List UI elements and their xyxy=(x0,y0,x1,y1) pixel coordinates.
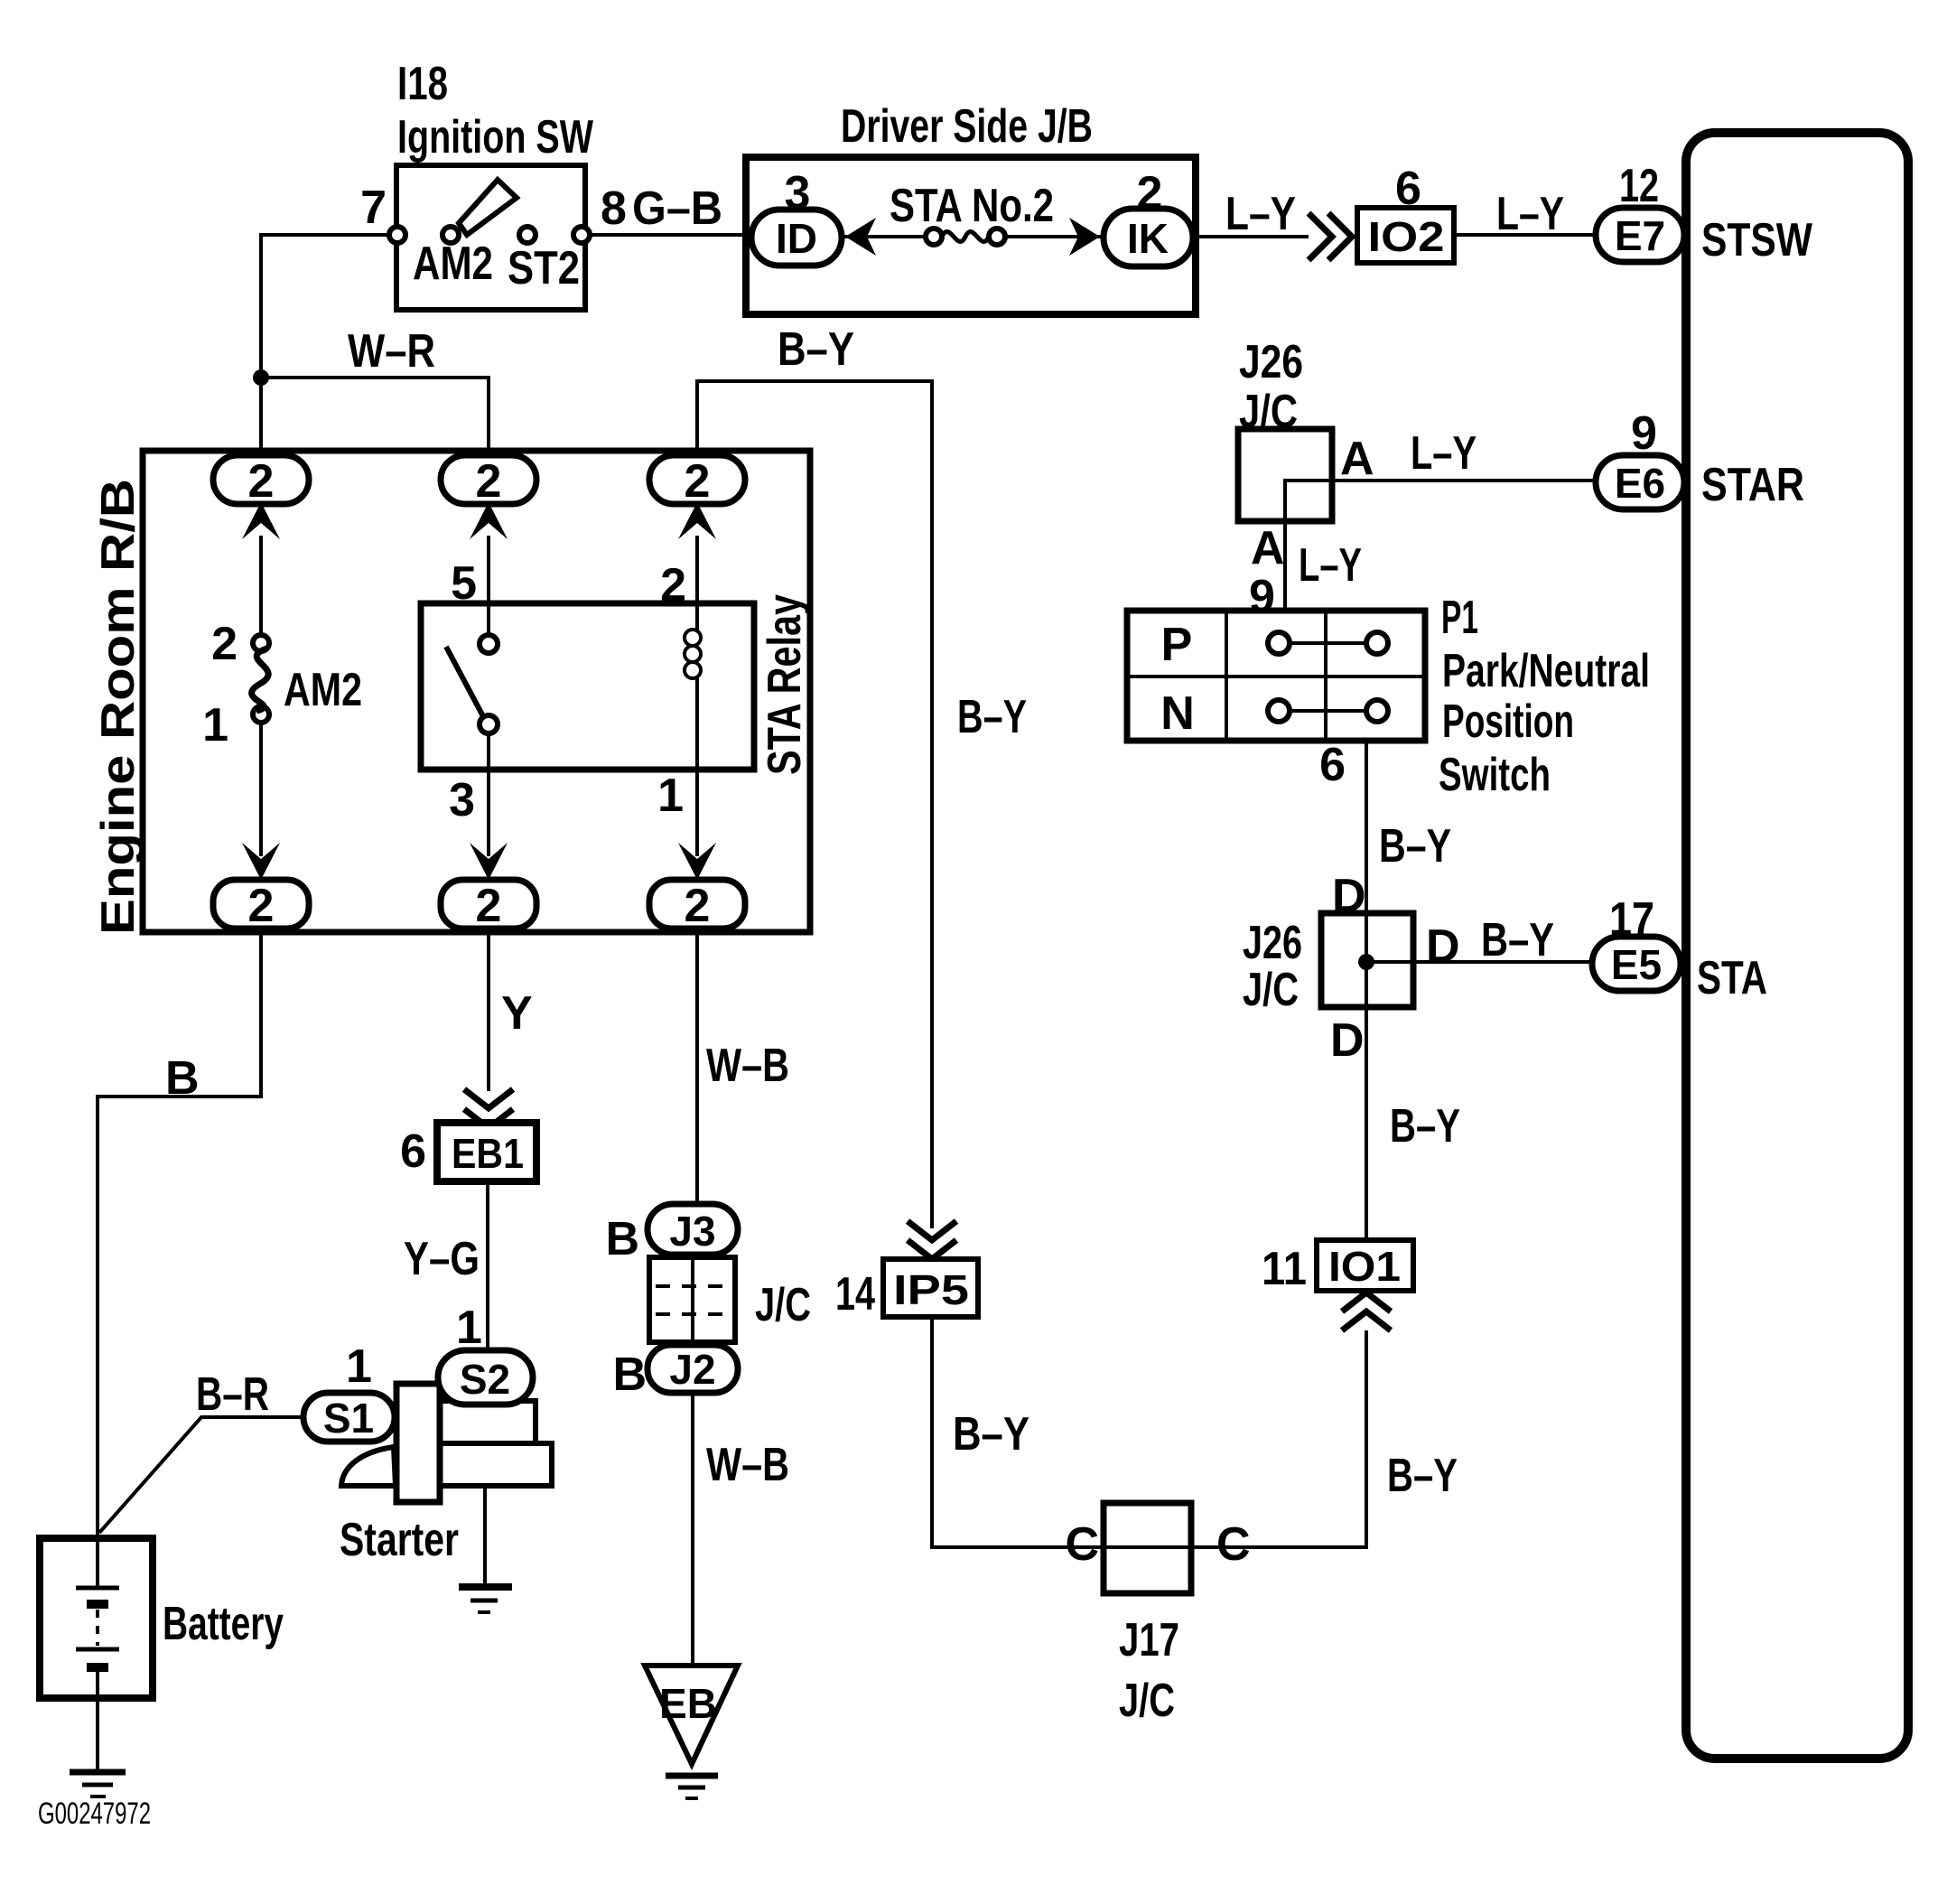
svg-text:J/C: J/C xyxy=(1243,964,1299,1016)
svg-text:IK: IK xyxy=(1127,215,1169,262)
svg-text:B: B xyxy=(165,1052,200,1105)
svg-text:D: D xyxy=(1330,1014,1365,1067)
connector S1 oval xyxy=(303,1393,395,1442)
svg-text:Park/Neutral: Park/Neutral xyxy=(1442,645,1650,697)
svg-text:1: 1 xyxy=(657,770,684,822)
battery box xyxy=(40,1538,153,1698)
wire G-B pin8 to J/B xyxy=(582,233,753,237)
svg-text:S2: S2 xyxy=(460,1356,510,1403)
svg-text:I18: I18 xyxy=(397,58,448,110)
svg-text:2: 2 xyxy=(476,880,502,932)
N row contacts xyxy=(1290,709,1366,713)
svg-text:Ignition SW: Ignition SW xyxy=(397,111,594,163)
svg-text:B: B xyxy=(605,1213,639,1265)
terminal AM2 xyxy=(442,227,459,243)
wire inside J/B left xyxy=(842,235,934,238)
ignition switch I18 box xyxy=(396,165,585,310)
svg-text:J26: J26 xyxy=(1243,917,1302,969)
svg-text:E5: E5 xyxy=(1611,941,1662,988)
starter body rect right lower xyxy=(440,1443,552,1486)
ground symbol below EB xyxy=(666,1773,718,1779)
svg-text:E6: E6 xyxy=(1615,460,1665,507)
wire D to E5 xyxy=(1366,960,1592,964)
connector E6 xyxy=(1596,455,1684,509)
arrow up col3 xyxy=(678,502,716,539)
wire W-B col3 to J3 xyxy=(695,932,699,1206)
svg-text:6: 6 xyxy=(400,1125,426,1178)
svg-text:IP5: IP5 xyxy=(893,1266,969,1313)
svg-text:Battery: Battery xyxy=(163,1598,284,1650)
junction dot D xyxy=(1358,954,1374,970)
wire relay switch to arrow xyxy=(487,733,490,856)
svg-text:Starter: Starter xyxy=(340,1514,459,1566)
svg-text:W–B: W–B xyxy=(706,1439,789,1491)
wire IP5 to J17 xyxy=(932,1317,1105,1547)
svg-text:8: 8 xyxy=(601,182,627,235)
svg-text:J26: J26 xyxy=(1239,336,1303,388)
connector E5 xyxy=(1592,937,1681,991)
connector IP5 xyxy=(883,1259,978,1317)
svg-text:14: 14 xyxy=(835,1268,875,1321)
svg-text:STSW: STSW xyxy=(1701,214,1813,266)
arrow left solid xyxy=(845,218,876,256)
fuse STA No.2 xyxy=(926,229,942,245)
svg-text:3: 3 xyxy=(785,167,811,219)
svg-text:P: P xyxy=(1161,619,1193,671)
connector ID oval xyxy=(751,210,842,266)
wire col1 to fuse xyxy=(259,536,263,637)
connector J3 oval xyxy=(647,1204,738,1255)
svg-text:B–Y: B–Y xyxy=(1387,1450,1458,1502)
svg-text:2: 2 xyxy=(1137,167,1163,219)
connector E7 xyxy=(1596,208,1684,262)
park/neutral position switch P1 xyxy=(1127,611,1425,741)
svg-text:5: 5 xyxy=(451,557,477,610)
svg-text:Switch: Switch xyxy=(1439,749,1551,801)
relay coil xyxy=(685,630,701,646)
arrow right solid xyxy=(1069,218,1100,256)
arrow down col3 xyxy=(678,843,716,880)
fuse AM2 xyxy=(253,635,269,651)
svg-text:6: 6 xyxy=(1319,739,1346,791)
ground symbol below battery xyxy=(70,1769,126,1776)
svg-text:STA: STA xyxy=(1697,952,1767,1004)
connector J2 oval xyxy=(647,1345,738,1393)
svg-text:B: B xyxy=(612,1349,647,1401)
svg-text:C: C xyxy=(1216,1518,1251,1571)
ground EB triangle xyxy=(645,1666,738,1764)
svg-text:L–Y: L–Y xyxy=(1299,539,1362,592)
svg-text:B–Y: B–Y xyxy=(953,1408,1029,1461)
wire IO1 to J26 xyxy=(1365,1009,1368,1240)
svg-text:A: A xyxy=(1251,522,1285,574)
svg-text:2: 2 xyxy=(248,880,275,932)
svg-text:J/C: J/C xyxy=(1239,386,1298,438)
connector oval 2 bottom col1 xyxy=(213,880,309,929)
svg-text:Y–G: Y–G xyxy=(404,1233,480,1285)
starter nose curve xyxy=(341,1447,396,1486)
svg-text:ST2: ST2 xyxy=(508,242,580,294)
chevrons into EB1 xyxy=(464,1089,513,1128)
svg-text:2: 2 xyxy=(685,455,711,508)
svg-text:B–Y: B–Y xyxy=(1481,914,1554,966)
junction J26 J/C box lower xyxy=(1321,913,1413,1007)
ground symbol starter xyxy=(459,1583,512,1591)
svg-text:2: 2 xyxy=(476,455,502,508)
connector IK oval xyxy=(1104,209,1193,266)
svg-text:W–B: W–B xyxy=(706,1040,789,1092)
wire W-B J2 to EB xyxy=(691,1393,694,1666)
arrow down col1 xyxy=(242,843,280,880)
svg-text:W–R: W–R xyxy=(348,325,435,378)
svg-text:1: 1 xyxy=(456,1302,482,1354)
terminal ST2 xyxy=(519,227,536,243)
connector IO1 xyxy=(1317,1240,1413,1291)
svg-text:G00247972: G00247972 xyxy=(38,1797,151,1831)
svg-text:2: 2 xyxy=(211,618,238,670)
junction J17 box xyxy=(1104,1503,1191,1593)
svg-text:B–Y: B–Y xyxy=(1390,1100,1460,1153)
wire B-R battery to S1 xyxy=(99,1417,303,1533)
svg-text:3: 3 xyxy=(449,774,475,826)
wire starter to ground xyxy=(483,1486,487,1587)
svg-text:STA No.2: STA No.2 xyxy=(890,180,1054,232)
svg-text:L–Y: L–Y xyxy=(1225,188,1296,240)
wire pin7 to column1 xyxy=(261,235,397,457)
battery cells xyxy=(96,1538,99,1588)
svg-text:Engine Room R/B: Engine Room R/B xyxy=(92,479,144,935)
svg-text:IO2: IO2 xyxy=(1368,213,1445,260)
svg-text:B–Y: B–Y xyxy=(1379,820,1451,873)
connector oval 2 bottom col3 xyxy=(649,880,745,929)
connector IO2 xyxy=(1357,208,1454,263)
wire W-R branch xyxy=(261,378,489,457)
svg-text:C: C xyxy=(1065,1518,1099,1571)
svg-text:G–B: G–B xyxy=(632,182,722,235)
chevrons into IP5 xyxy=(908,1221,956,1259)
svg-text:Position: Position xyxy=(1442,695,1574,748)
svg-text:11: 11 xyxy=(1262,1243,1307,1295)
svg-text:J/C: J/C xyxy=(1119,1675,1175,1727)
svg-text:AM2: AM2 xyxy=(284,664,362,716)
svg-text:6: 6 xyxy=(1395,163,1421,215)
svg-text:AM2: AM2 xyxy=(413,238,493,290)
svg-text:STAR: STAR xyxy=(1701,459,1804,511)
svg-text:STA Relay: STA Relay xyxy=(759,594,811,775)
starter body rect right upper xyxy=(440,1401,536,1443)
ignition lever xyxy=(459,180,517,235)
starter solenoid bar xyxy=(396,1384,440,1502)
connector oval 2 top col2 xyxy=(441,455,536,504)
wire B col1 to battery xyxy=(98,932,261,1536)
svg-text:1: 1 xyxy=(202,699,228,751)
wire through J26 xyxy=(1365,741,1368,1007)
junction J26 J/C box upper xyxy=(1238,429,1332,521)
arrow down col2 xyxy=(470,843,508,880)
svg-text:EB1: EB1 xyxy=(452,1130,524,1177)
svg-text:B–Y: B–Y xyxy=(957,691,1027,743)
wire A to E6 xyxy=(1285,481,1596,611)
svg-text:S1: S1 xyxy=(323,1395,374,1442)
wire Y col2 to EB1 xyxy=(487,932,490,1091)
svg-text:EB: EB xyxy=(659,1680,717,1727)
svg-text:12: 12 xyxy=(1619,160,1659,212)
wire inside J/B right xyxy=(997,235,1104,238)
svg-text:9: 9 xyxy=(1631,407,1657,460)
terminal pin 7 xyxy=(389,227,405,243)
wire Y-G EB1 to S2 xyxy=(486,1181,489,1352)
svg-text:D: D xyxy=(1426,920,1460,973)
terminal pin 8 xyxy=(573,227,590,243)
node junction dot W-R xyxy=(253,369,269,386)
chevrons out of IO1 xyxy=(1342,1293,1391,1330)
wire B-Y relay coil to IP5 xyxy=(697,381,932,1228)
P row contacts xyxy=(1290,641,1366,645)
svg-text:E7: E7 xyxy=(1615,212,1665,259)
STA relay box xyxy=(421,603,754,770)
ECU box (right side) xyxy=(1686,133,1908,1759)
junction J/C dashed box xyxy=(649,1257,735,1342)
relay switch contacts xyxy=(446,647,484,718)
Engine Room R/B box xyxy=(143,451,810,932)
svg-text:1: 1 xyxy=(346,1340,372,1393)
connector oval 2 bottom col2 xyxy=(441,880,536,929)
svg-text:B–Y: B–Y xyxy=(778,323,854,376)
wire IO2 to E7 xyxy=(1454,233,1596,237)
svg-text:17: 17 xyxy=(1609,893,1654,946)
svg-text:Driver Side J/B: Driver Side J/B xyxy=(841,100,1093,153)
wire J17 to IO1 xyxy=(1191,1330,1366,1547)
arrow up col2 xyxy=(470,502,508,539)
svg-text:Y: Y xyxy=(501,987,533,1040)
svg-text:P1: P1 xyxy=(1441,592,1478,644)
svg-text:L–Y: L–Y xyxy=(1496,188,1564,240)
svg-text:2: 2 xyxy=(685,880,711,932)
svg-text:N: N xyxy=(1160,687,1195,740)
chevrons into IO2 xyxy=(1309,213,1352,260)
svg-text:IO1: IO1 xyxy=(1328,1243,1401,1290)
Driver Side J/B box xyxy=(746,157,1196,314)
svg-text:2: 2 xyxy=(660,559,686,611)
svg-text:D: D xyxy=(1332,870,1366,922)
svg-text:J17: J17 xyxy=(1119,1614,1179,1666)
wire col3 into relay xyxy=(695,536,699,632)
connector oval 2 top col3 xyxy=(649,455,745,504)
svg-text:ID: ID xyxy=(776,215,817,262)
wire relay coil to arrow xyxy=(695,678,699,856)
svg-text:7: 7 xyxy=(360,182,387,234)
wire IK to IO2 xyxy=(1193,235,1309,238)
connector EB1 xyxy=(437,1123,536,1181)
wire col2 into relay xyxy=(487,536,490,636)
svg-text:J/C: J/C xyxy=(755,1279,811,1331)
connector S2 oval xyxy=(438,1350,533,1405)
svg-text:2: 2 xyxy=(248,455,275,508)
arrow up col1 xyxy=(242,502,280,539)
svg-text:B–R: B–R xyxy=(196,1368,269,1421)
svg-text:J2: J2 xyxy=(669,1346,715,1393)
svg-text:J3: J3 xyxy=(669,1208,715,1255)
wire fuse to arrow xyxy=(259,723,263,856)
connector oval 2 top col1 xyxy=(213,455,309,504)
svg-text:L–Y: L–Y xyxy=(1411,427,1477,480)
svg-text:A: A xyxy=(1340,433,1374,485)
